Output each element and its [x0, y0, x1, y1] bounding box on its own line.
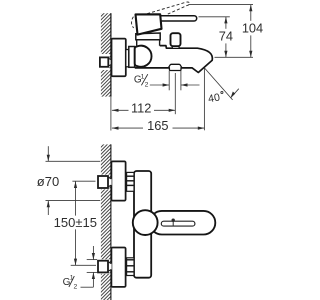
svg-text:2: 2 [74, 283, 78, 290]
svg-text:40: 40 [207, 91, 221, 105]
svg-text:1: 1 [141, 73, 145, 80]
svg-text:ø70: ø70 [37, 174, 59, 189]
svg-text:104: 104 [242, 20, 263, 35]
svg-text:74: 74 [219, 29, 233, 44]
svg-text:150±15: 150±15 [54, 215, 97, 230]
svg-text:112: 112 [131, 100, 151, 115]
svg-text:2: 2 [145, 81, 149, 88]
svg-text:165: 165 [147, 118, 168, 133]
